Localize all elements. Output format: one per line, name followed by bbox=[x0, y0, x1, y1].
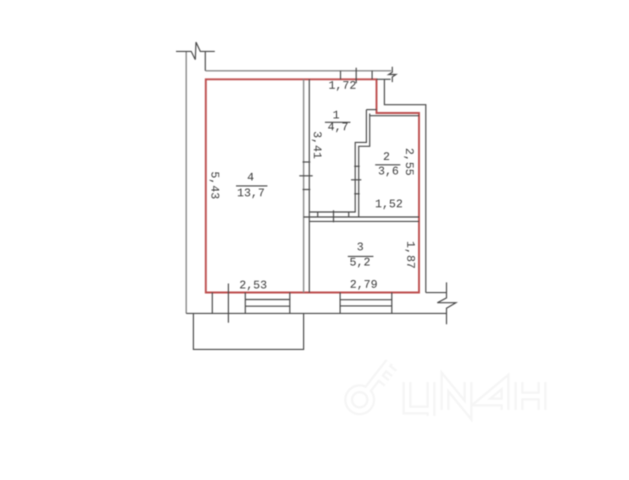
svg-text:3,6: 3,6 bbox=[378, 165, 399, 178]
svg-text:2,53: 2,53 bbox=[239, 279, 267, 292]
svg-text:3,41: 3,41 bbox=[310, 131, 323, 159]
svg-text:5,43: 5,43 bbox=[208, 171, 221, 199]
svg-text:1,72: 1,72 bbox=[328, 80, 356, 93]
svg-text:2,79: 2,79 bbox=[350, 279, 378, 292]
svg-text:4,7: 4,7 bbox=[328, 121, 349, 134]
svg-text:2: 2 bbox=[383, 151, 390, 164]
svg-text:1,87: 1,87 bbox=[403, 241, 416, 269]
svg-text:13,7: 13,7 bbox=[237, 187, 265, 200]
svg-text:4: 4 bbox=[247, 172, 254, 185]
svg-text:5,2: 5,2 bbox=[350, 257, 371, 270]
svg-text:1,52: 1,52 bbox=[375, 198, 403, 211]
svg-text:2,55: 2,55 bbox=[402, 148, 415, 176]
svg-text:3: 3 bbox=[357, 241, 364, 254]
